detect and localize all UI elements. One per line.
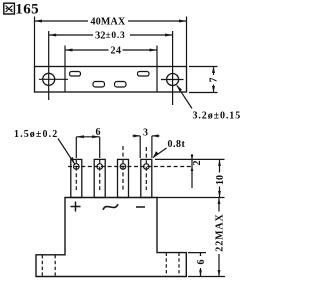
svg-text:1.5ø±0.2: 1.5ø±0.2 [14,129,58,140]
svg-text:32±0.3: 32±0.3 [95,31,125,42]
svg-text:3.2ø±0.15: 3.2ø±0.15 [193,111,242,122]
svg-text:3: 3 [143,128,148,139]
svg-text:0.8t: 0.8t [168,139,186,150]
svg-text:10: 10 [215,175,226,185]
svg-text:22MAX: 22MAX [215,213,226,251]
svg-text:165: 165 [15,2,39,18]
svg-text:40MAX: 40MAX [91,17,126,28]
svg-text:6: 6 [196,260,207,265]
svg-text:7: 7 [209,78,220,83]
svg-text:2: 2 [192,161,203,166]
svg-text:6: 6 [96,127,101,138]
svg-text:24: 24 [111,46,122,57]
